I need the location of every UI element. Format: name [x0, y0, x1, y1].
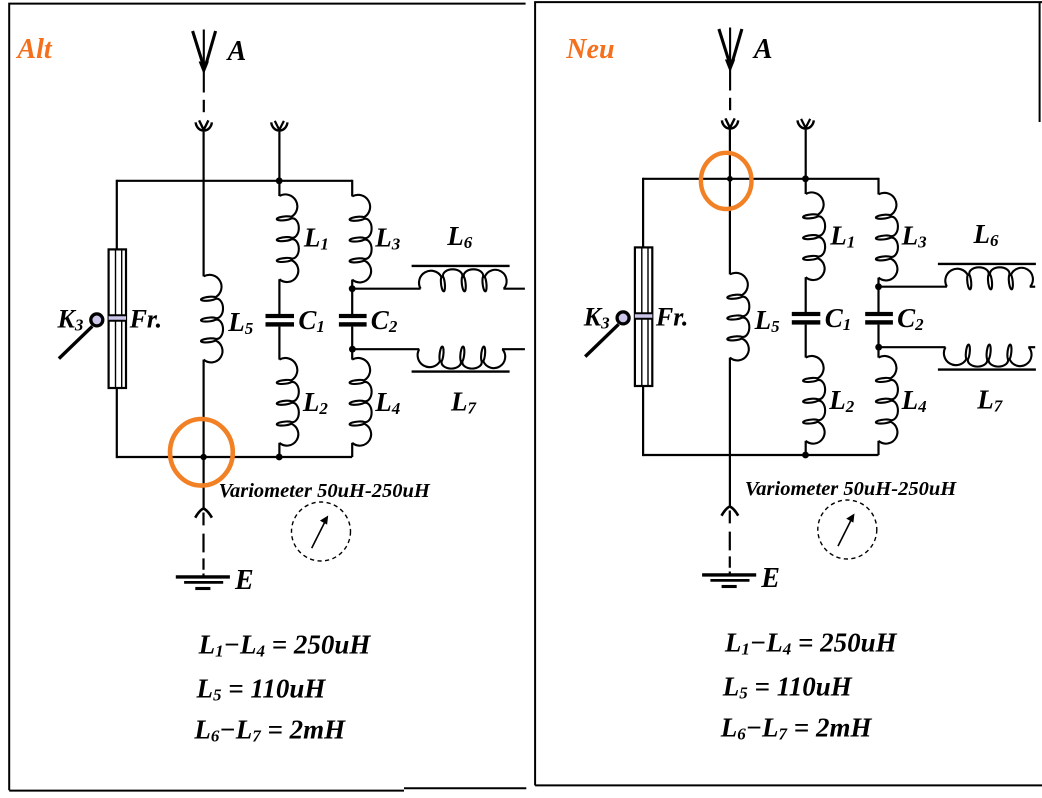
svg-text:L1−L4 = 250uH: L1−L4 = 250uH	[198, 630, 372, 661]
svg-text:Variometer 50uH-250uH: Variometer 50uH-250uH	[745, 478, 957, 500]
wire top bus (Neu)	[643, 178, 878, 180]
wire L2 to bottom bus (Alt)	[278, 443, 280, 457]
wire C1 to L2 (Alt)	[278, 327, 280, 360]
wire socket 1 down through top bus to L5 (Alt)	[203, 132, 205, 277]
inductor L1 (Neu)	[803, 192, 825, 280]
wire left branch lower (Neu)	[642, 386, 644, 456]
wire L4 to bottom bus (Neu)	[877, 441, 879, 455]
L7 core bar (Alt)	[412, 370, 510, 372]
dashed earth lead wire (Alt)	[202, 513, 204, 577]
socket 2 cup (Alt)	[271, 122, 287, 130]
antenna lead dashed wire (Neu)	[729, 98, 731, 110]
ground symbol E (Neu)	[702, 575, 756, 587]
capacitor C2 (Neu)	[865, 312, 893, 325]
switch K3 contact (Alt)	[91, 314, 103, 326]
switch K3 contact (Neu)	[617, 312, 629, 324]
plug arrow in socket 2 (Neu)	[801, 119, 810, 128]
wire left branch upper (Neu)	[642, 178, 644, 248]
wire C2 to L4 (Alt)	[351, 327, 353, 360]
panel frame Alt	[9, 4, 526, 791]
svg-text:A: A	[752, 34, 773, 65]
inductor L3 (Alt)	[350, 195, 372, 283]
wire L5 to bottom bus and variometer (Neu)	[729, 358, 731, 507]
wire socket 2 to top bus (Alt)	[278, 132, 280, 181]
svg-text:Neu: Neu	[565, 34, 614, 65]
wire top bus corner to L3 (Alt)	[351, 180, 353, 197]
wire C1 to L2 (Neu)	[805, 325, 807, 358]
L7 core bar (Neu)	[938, 368, 1036, 370]
svg-text:E: E	[760, 563, 780, 594]
socket 1 cup (Neu)	[722, 120, 738, 128]
junction dot L6 tap (Alt)	[349, 285, 356, 292]
capacitor C1 (Alt)	[266, 314, 295, 327]
plug arrow to variometer (Alt)	[195, 508, 212, 517]
capacitor C2 (Alt)	[339, 314, 367, 327]
fuse Fr. body (Alt)	[109, 249, 126, 388]
wire left branch lower (Alt)	[116, 388, 118, 458]
wire L6 tap (Neu)	[879, 286, 947, 288]
socket 1 cup (Alt)	[196, 122, 212, 130]
wire L1 to C1 (Alt)	[278, 279, 280, 314]
inductor L3 (Neu)	[876, 193, 898, 281]
wire top bus corner to L3 (Neu)	[877, 178, 879, 195]
L6 core bar (Alt)	[412, 265, 510, 267]
wire top bus (Alt)	[117, 180, 352, 182]
antenna lead dashed wire (Alt)	[203, 100, 205, 112]
wire L5 to bottom bus and variometer (Alt)	[203, 360, 205, 509]
svg-text:L1−L4 = 250uH: L1−L4 = 250uH	[724, 628, 898, 659]
junction dot L6 tap (Neu)	[875, 283, 882, 290]
inductor L2 (Alt)	[277, 358, 299, 446]
junction dot socket2 / top bus (Alt)	[276, 177, 283, 184]
highlight circle on top node (Neu)	[701, 153, 752, 209]
plug arrow in socket 2 (Alt)	[275, 121, 284, 130]
inductor L5 (Alt)	[201, 275, 223, 363]
wire L3 to C2 (Neu)	[877, 278, 879, 312]
antenna A mast (Neu)	[719, 28, 742, 91]
wire socket 1 down through top bus to L5 (Neu)	[729, 130, 731, 275]
wire L7 right stub (Alt)	[502, 348, 525, 350]
wire L6 right stub (Neu)	[1030, 286, 1036, 288]
wire L7 tap (Neu)	[879, 346, 946, 348]
inductor L4 (Alt)	[350, 358, 372, 446]
wire bottom bus (Alt)	[117, 456, 352, 458]
inductor L6 (Neu)	[945, 267, 1033, 289]
svg-text:E: E	[234, 565, 254, 596]
svg-text:A: A	[226, 36, 247, 67]
inductor L2 (Neu)	[803, 356, 825, 444]
junction dot variometer / top bus (Neu)	[727, 176, 733, 182]
svg-text:Variometer 50uH-250uH: Variometer 50uH-250uH	[219, 480, 431, 502]
panel frame Neu	[535, 2, 1042, 785]
svg-text:Fr.: Fr.	[655, 303, 689, 332]
inductor L4 (Neu)	[876, 356, 898, 444]
ground symbol E (Alt)	[176, 577, 230, 589]
wire top bus to L1 (Neu)	[805, 179, 807, 194]
wire L2 to bottom bus (Neu)	[805, 441, 807, 455]
dashed earth lead wire (Neu)	[729, 511, 731, 575]
highlight circle on bottom node (Alt)	[170, 419, 233, 486]
variometer meter dial (Alt)	[292, 502, 351, 561]
variometer meter dial (Neu)	[818, 500, 877, 559]
inductor L7 (Neu)	[944, 345, 1032, 367]
wire socket 2 to top bus (Neu)	[805, 130, 807, 179]
wire L6 right stub (Alt)	[503, 288, 525, 290]
junction dot L2 / bottom bus (Alt)	[276, 454, 283, 461]
wire L6 tap (Alt)	[352, 288, 420, 290]
wire L7 tap (Alt)	[352, 348, 419, 350]
inductor L6 (Alt)	[419, 269, 507, 291]
L6 core bar (Neu)	[938, 263, 1036, 265]
plug arrow into socket 1 (Alt)	[199, 120, 208, 129]
wire L3 to C2 (Alt)	[351, 280, 353, 314]
antenna A mast (Alt)	[193, 30, 216, 93]
wire C2 to L4 (Neu)	[877, 325, 879, 358]
svg-text:Fr.: Fr.	[129, 305, 163, 334]
wire L1 to C1 (Neu)	[805, 277, 807, 312]
capacitor C1 (Neu)	[792, 312, 821, 325]
wire L7 right stub (Neu)	[1028, 346, 1035, 348]
wire top bus to L1 (Alt)	[278, 181, 280, 196]
switch K3 lever (Neu)	[585, 324, 618, 356]
fuse Fr. body (Neu)	[635, 247, 652, 386]
inductor L5 (Neu)	[727, 273, 749, 361]
wire L4 to bottom bus (Alt)	[351, 443, 353, 457]
switch K3 lever (Alt)	[59, 326, 92, 358]
wire bottom bus (Neu)	[643, 454, 878, 456]
junction dot socket2 / top bus (Neu)	[802, 175, 809, 182]
inductor L7 (Alt)	[418, 347, 506, 369]
junction dot variometer / bottom bus (Alt)	[200, 454, 206, 460]
plug arrow into socket 1 (Neu)	[725, 118, 734, 127]
junction dot L7 tap (Alt)	[349, 346, 356, 353]
junction dot L2 / bottom bus (Neu)	[802, 452, 809, 459]
socket 2 cup (Neu)	[798, 120, 814, 128]
wire left branch upper (Alt)	[116, 180, 118, 250]
inductor L1 (Alt)	[277, 194, 299, 282]
plug arrow to variometer (Neu)	[722, 506, 739, 515]
svg-text:Alt: Alt	[15, 34, 52, 65]
junction dot L7 tap (Neu)	[875, 344, 882, 351]
